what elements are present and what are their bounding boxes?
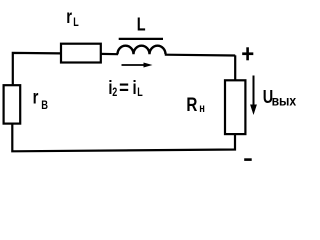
svg-text:L: L — [137, 87, 142, 99]
svg-text:r: r — [66, 6, 72, 27]
svg-text:B: B — [41, 99, 48, 112]
svg-text:вых: вых — [272, 93, 297, 109]
svg-text:н: н — [199, 102, 205, 115]
svg-text:i: i — [133, 77, 137, 98]
svg-text:r: r — [33, 87, 39, 108]
svg-text:L: L — [73, 17, 78, 29]
svg-text:=: = — [119, 77, 129, 98]
svg-text:2: 2 — [112, 87, 117, 99]
svg-text:L: L — [137, 14, 146, 35]
svg-text:R: R — [186, 93, 197, 115]
